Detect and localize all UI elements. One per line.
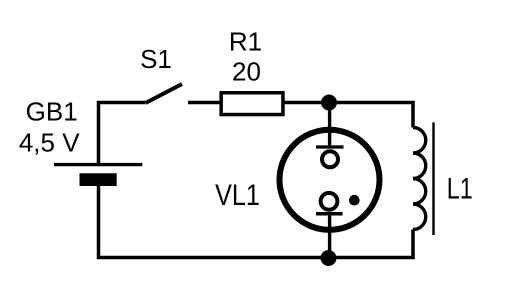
battery GB1 negative plate: [80, 173, 117, 186]
svg-text:VL1: VL1: [215, 178, 260, 212]
lamp VL1 bottom electrode bar: [316, 212, 343, 216]
lamp VL1 gas dot: [349, 195, 360, 206]
junction node B: [321, 250, 337, 266]
svg-text:L1: L1: [447, 172, 473, 205]
wire lamp VL1 bottom lead: [328, 214, 331, 258]
battery GB1: [54, 165, 142, 186]
battery GB1 positive plate: [54, 163, 142, 166]
inductor L1: [413, 122, 434, 235]
wire battery positive to switch S1 left contact: [99, 103, 146, 165]
wire S1 right contact to resistor R1: [188, 101, 220, 105]
wire node A to inductor L1 top: [329, 103, 413, 128]
svg-text:20: 20: [232, 57, 261, 87]
svg-text:R1: R1: [229, 27, 262, 57]
inductor L1 core: [432, 122, 434, 235]
lamp VL1: [280, 130, 380, 230]
wire R1 to node A: [285, 101, 330, 105]
lamp VL1 top electrode circle: [322, 151, 338, 167]
lamp VL1 bottom electrode circle: [321, 193, 338, 210]
inductor L1 winding: [413, 128, 426, 230]
svg-text:S1: S1: [140, 44, 172, 74]
resistor R1: [221, 93, 283, 115]
lamp VL1 envelope circle: [280, 130, 380, 230]
wire lamp VL1 top lead: [328, 103, 331, 149]
switch S1 lever: [146, 84, 183, 103]
svg-text:4,5 V: 4,5 V: [19, 128, 80, 158]
junction node A: [321, 95, 337, 111]
lamp VL1 top electrode bar: [316, 145, 344, 148]
svg-text:GB1: GB1: [26, 97, 78, 127]
wire inductor L1 bottom to node B: [329, 230, 414, 258]
wire node B to battery negative: [99, 186, 329, 258]
